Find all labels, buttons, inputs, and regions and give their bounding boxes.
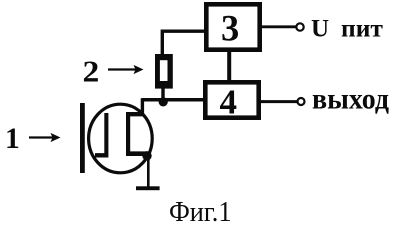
svg-text:4: 4 bbox=[220, 83, 238, 122]
sensor 1 body circle bbox=[89, 104, 153, 173]
block 4 bbox=[205, 82, 258, 117]
sensor 1 sensitive electrode plate bbox=[80, 103, 85, 173]
arrow to sensor 1 bbox=[29, 136, 54, 138]
block 3 bbox=[206, 4, 259, 49]
sensor 1 right inner electrode bbox=[126, 112, 147, 156]
wire source to ground bbox=[147, 156, 150, 187]
node source junction dot bbox=[142, 151, 151, 160]
svg-text:Фиг.1: Фиг.1 bbox=[169, 196, 232, 224]
terminal U pit bbox=[296, 23, 303, 30]
sensor 1 left inner electrode bbox=[95, 113, 108, 158]
wire resistor top to block 3 bbox=[162, 31, 204, 56]
arrow to resistor 2 bbox=[108, 68, 137, 70]
wire block 3 to block 4 bbox=[227, 52, 231, 80]
terminal output bbox=[298, 98, 305, 105]
svg-text:3: 3 bbox=[221, 8, 239, 49]
resistor R (element 2) body bbox=[155, 54, 173, 89]
wire block 4 to output terminal bbox=[261, 100, 297, 103]
wire node B to block 4 bbox=[142, 98, 204, 102]
resistor R (element 2) inner window bbox=[160, 60, 168, 81]
svg-text:1: 1 bbox=[5, 123, 20, 155]
svg-text:пит: пит bbox=[341, 13, 383, 42]
wire drain lead into sensor 1 bbox=[141, 98, 144, 114]
node resistor drain junction dot bbox=[159, 97, 168, 106]
wire resistor bottom to node B bbox=[161, 87, 164, 100]
ground bbox=[136, 186, 160, 190]
svg-text:2: 2 bbox=[83, 54, 100, 88]
svg-text:U: U bbox=[311, 16, 329, 43]
wire block 3 to U terminal bbox=[262, 25, 296, 28]
svg-text:выход: выход bbox=[312, 83, 389, 116]
